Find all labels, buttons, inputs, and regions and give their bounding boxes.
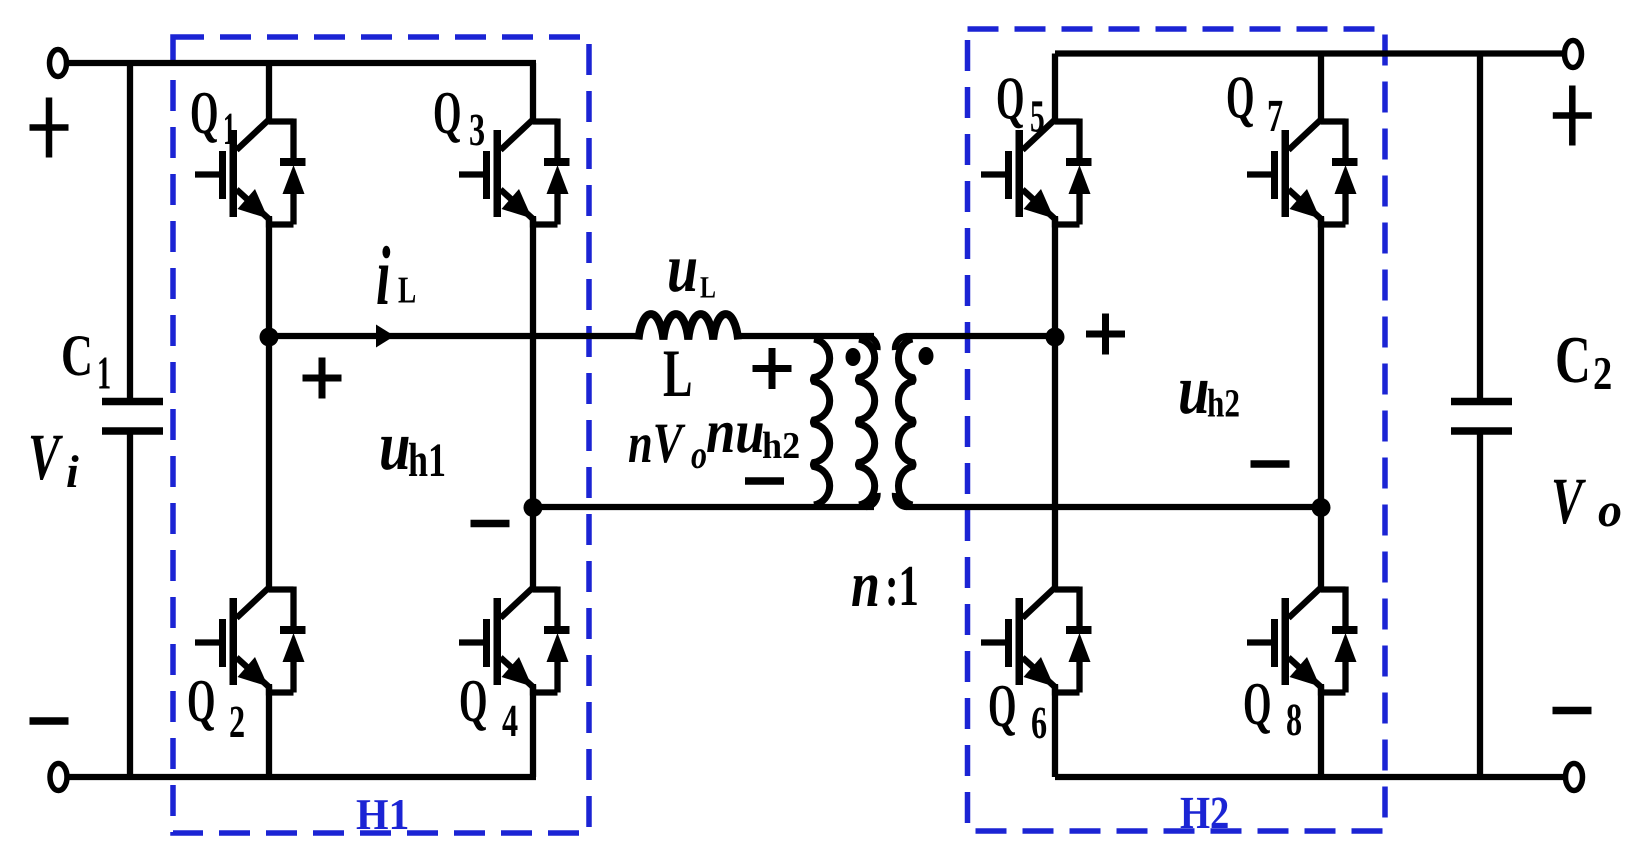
label H1: [356, 790, 409, 839]
wire node B to transformer primary bottom: [533, 504, 874, 510]
svg-text:H1: H1: [356, 790, 409, 839]
svg-text:7: 7: [1267, 90, 1283, 141]
label Q8: [1243, 671, 1271, 738]
wire Q1 collector leg: [266, 63, 272, 125]
input plus mark: [30, 124, 69, 131]
label n:1: [851, 549, 880, 621]
svg-text:i: i: [376, 230, 390, 323]
output terminal top-right: [1565, 41, 1582, 68]
label Q6: [988, 673, 1016, 740]
svg-text:o: o: [1598, 484, 1622, 537]
svg-text:6: 6: [1031, 697, 1047, 748]
label Q5: [996, 66, 1024, 133]
output plus mark: [1553, 112, 1592, 119]
svg-text:u: u: [379, 408, 411, 485]
svg-text:V: V: [28, 421, 63, 494]
svg-text:4: 4: [502, 695, 518, 746]
transformer secondary winding column: [898, 339, 913, 505]
wire top rail right: [1055, 50, 1565, 56]
svg-text:3: 3: [469, 104, 485, 155]
wire Q5 collector leg: [1052, 54, 1058, 125]
label uh1: [379, 408, 411, 485]
input minus mark: [30, 717, 69, 725]
svg-text:2: 2: [229, 696, 245, 747]
uh1 plus mark: [303, 375, 342, 382]
wire Q4 collector leg: [530, 507, 536, 593]
transistor Q6: [981, 587, 1092, 696]
svg-text:Q: Q: [433, 80, 461, 147]
wire Q1 emitter to node A: [266, 216, 272, 339]
output minus mark: [1553, 707, 1592, 715]
svg-text:n: n: [851, 549, 880, 621]
svg-text:Q: Q: [190, 80, 218, 147]
wire Q8 emitter to bottom rail: [1318, 684, 1324, 777]
svg-text:u: u: [667, 230, 698, 306]
node A junction dot: [260, 328, 279, 347]
wire node A to inductor: [269, 333, 638, 339]
svg-text:nV: nV: [628, 412, 685, 475]
svg-text:5: 5: [1030, 91, 1045, 142]
wire Q3 collector leg: [530, 63, 536, 125]
svg-text:Q: Q: [1226, 65, 1254, 132]
wire secondary top to node C: [906, 333, 1055, 339]
input terminal top-left: [50, 50, 67, 77]
capacitor C1: [127, 63, 133, 398]
transformer primary bottom corner: [866, 493, 878, 507]
svg-text:Q: Q: [459, 668, 487, 735]
svg-text:H2: H2: [1180, 787, 1229, 838]
transformer minus mark: [745, 477, 784, 485]
label Q1: [190, 80, 218, 147]
node C junction dot: [1046, 328, 1065, 347]
svg-text:Q: Q: [187, 668, 215, 735]
node D junction dot: [1312, 498, 1331, 517]
label C2: [1555, 323, 1591, 397]
label nVo: [628, 412, 685, 475]
svg-text::1: :1: [885, 553, 919, 618]
transformer primary top corner: [866, 336, 878, 350]
wire Q2 emitter to bottom rail: [266, 684, 272, 777]
input terminal bottom-left: [50, 764, 67, 791]
uh1 minus mark: [471, 520, 510, 528]
transistor Q2: [195, 587, 306, 696]
transformer secondary top corner: [895, 336, 907, 350]
svg-text:Q: Q: [1243, 671, 1271, 738]
label uh2: [1178, 352, 1210, 429]
node B junction dot: [524, 498, 543, 517]
wire Q4 emitter to bottom rail: [530, 684, 536, 777]
wire bottom rail right: [1055, 774, 1566, 780]
transistor Q7: [1247, 119, 1358, 228]
svg-text:nu: nu: [706, 398, 765, 466]
label Q3: [433, 80, 461, 147]
wire Q3 emitter through to node B: [530, 216, 536, 510]
label C1: [61, 322, 93, 388]
H1 bridge dashed box: [173, 37, 589, 833]
label Vi: [28, 421, 63, 494]
label Q7: [1226, 65, 1254, 132]
svg-text:1: 1: [223, 103, 236, 154]
transistor Q3: [459, 119, 570, 228]
transistor Q8: [1247, 587, 1358, 696]
label nuh2: [706, 398, 765, 466]
label L: [663, 335, 692, 411]
transformer primary winding inner column: [813, 339, 829, 505]
transistor Q4: [459, 587, 570, 696]
transformer plus mark: [753, 365, 792, 372]
transistor Q5: [981, 119, 1092, 228]
inductor L: [639, 314, 739, 339]
label Q4: [459, 668, 487, 735]
wire Q7 emitter through to node D: [1318, 216, 1324, 510]
current arrow iL: [376, 325, 395, 348]
wire Q7 collector leg: [1318, 54, 1324, 125]
capacitor C2: [1477, 54, 1483, 399]
wire top rail left: [67, 60, 537, 66]
svg-text:u: u: [1178, 352, 1210, 429]
svg-text:L: L: [663, 335, 692, 411]
svg-text:2: 2: [1593, 348, 1612, 400]
label iL: [376, 230, 390, 323]
svg-text:C: C: [61, 322, 93, 388]
wire bottom rail left: [67, 774, 536, 780]
wire Q5 emitter to node C: [1052, 216, 1058, 339]
label H2: [1180, 787, 1229, 838]
wire Q6 collector leg: [1052, 336, 1058, 593]
svg-text:8: 8: [1286, 694, 1302, 745]
wire inductor to transformer primary: [740, 333, 874, 339]
svg-text:L: L: [398, 270, 416, 312]
svg-text:Q: Q: [996, 66, 1024, 133]
svg-text:1: 1: [97, 348, 111, 400]
wire Q2 collector leg: [266, 336, 272, 593]
label Q2: [187, 668, 215, 735]
svg-text:o: o: [691, 432, 707, 477]
uh2 minus mark: [1251, 460, 1290, 468]
output terminal bottom-right: [1566, 764, 1583, 791]
transistor Q1: [195, 119, 306, 228]
svg-text:V: V: [1551, 465, 1586, 538]
transformer primary winding outer column: [858, 339, 874, 505]
wire Q8 collector leg: [1318, 507, 1324, 593]
H2 bridge dashed box: [968, 29, 1386, 831]
wire secondary bottom to node D: [906, 504, 1321, 510]
svg-text:L: L: [700, 270, 716, 305]
svg-text:Q: Q: [988, 673, 1016, 740]
transformer primary polarity dot: [846, 348, 861, 366]
svg-text:i: i: [66, 446, 79, 497]
wire Q6 emitter to bottom rail: [1052, 684, 1058, 777]
svg-text:h2: h2: [762, 425, 800, 467]
uh2 plus mark: [1086, 331, 1125, 338]
label Vo: [1551, 465, 1586, 538]
transformer secondary polarity dot: [919, 347, 934, 365]
label uL: [667, 230, 698, 306]
transformer secondary bottom corner: [895, 493, 907, 507]
svg-text:C: C: [1555, 323, 1591, 397]
svg-text:h1: h1: [408, 434, 446, 487]
svg-text:h2: h2: [1207, 381, 1240, 426]
